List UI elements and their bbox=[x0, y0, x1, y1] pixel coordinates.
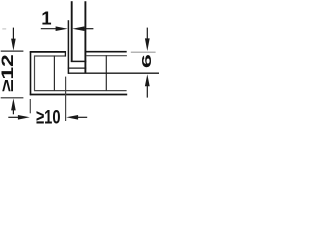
svg-text:≥10: ≥10 bbox=[36, 105, 60, 128]
svg-text:1: 1 bbox=[41, 7, 51, 28]
dim 1 left arrowhead bbox=[56, 26, 68, 31]
dim ge10 left arrow line bbox=[8, 116, 20, 118]
dim ge10 right arrow line bbox=[77, 116, 87, 118]
channel inner bottom bbox=[68, 67, 86, 69]
dim 1 left arrow line bbox=[41, 28, 58, 30]
dim ge12 lower arrowhead pointing up bbox=[11, 98, 16, 110]
faint tick at left edge of dim line bbox=[2, 28, 6, 30]
dim ge12 upper dimension line bbox=[12, 28, 14, 41]
channel outer bottom, reference line for dim 6 bbox=[68, 72, 159, 74]
internal divider left bbox=[53, 56, 55, 91]
dim ge12 upper arrowhead pointing down bbox=[11, 39, 16, 51]
dim 6 lower arrowhead pointing up bbox=[145, 74, 150, 86]
box inner left edge bbox=[34, 56, 36, 91]
dim 6 lower dimension line bbox=[146, 84, 148, 98]
dim ge10 left extension line bbox=[29, 99, 31, 113]
panel left face bbox=[71, 1, 73, 62]
svg-text:≥12: ≥12 bbox=[0, 54, 17, 92]
svg-text:6: 6 bbox=[140, 54, 154, 68]
panel right face and channel right wall bbox=[84, 1, 86, 73]
box inner top edge left bbox=[34, 55, 66, 57]
panel bottom edge bbox=[71, 60, 87, 62]
dim 6 top extension line gray bbox=[131, 51, 156, 53]
dim ge12 lower dimension line bbox=[12, 108, 14, 114]
box inner top edge right bbox=[86, 55, 127, 57]
dim ge10 left arrowhead bbox=[18, 115, 30, 120]
dim 6 upper arrowhead pointing down bbox=[145, 38, 150, 51]
box outer left edge bbox=[30, 51, 32, 95]
dim 1 right arrowhead bbox=[72, 26, 84, 31]
dim 1 right arrow line bbox=[83, 28, 93, 30]
box outer top edge right bbox=[86, 51, 127, 53]
dim ge12 top extension line bbox=[1, 50, 24, 52]
dim 6 upper dimension line bbox=[146, 28, 148, 41]
channel left wall (also extension line for dim 1) bbox=[67, 20, 69, 74]
box outer top edge left bbox=[30, 51, 66, 53]
internal divider right bbox=[105, 55, 107, 91]
dim ge10 right arrowhead bbox=[66, 115, 78, 120]
dim ge12 bottom extension line bbox=[1, 97, 24, 99]
slot edge vertical joining outer and inner top edges bbox=[64, 51, 66, 56]
box outer bottom edge bbox=[30, 94, 127, 96]
box inner bottom edge bbox=[34, 90, 127, 92]
dim ge10 right extension line bbox=[65, 77, 67, 121]
